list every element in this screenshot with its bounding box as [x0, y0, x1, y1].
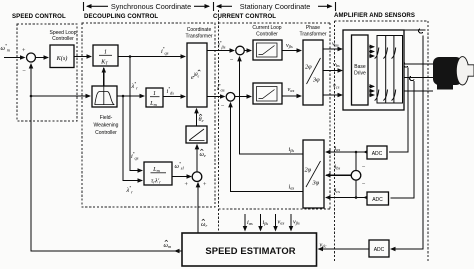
wire current feedback beta arrow: [239, 57, 241, 60]
svg-text:3φ: 3φ: [312, 180, 320, 187]
summing junction slip: [192, 172, 202, 182]
svg-text:Synchronous Coordinate: Synchronous Coordinate: [111, 2, 191, 11]
wire transformer output alpha to current summer: [207, 96, 225, 98]
wire adc3 input arrow: [391, 248, 395, 250]
ruler arrow synchronous right: [194, 5, 209, 7]
group box speed control: [17, 24, 77, 121]
wire dc bus tap down to adc3: [391, 36, 423, 250]
wire flux branch down to slip block: [123, 96, 142, 181]
svg-text:Base: Base: [354, 64, 366, 70]
group box amplifier top: [335, 20, 429, 22]
wire speed feedback vertical: [31, 64, 182, 251]
value Lm over tau lambda fraction: [151, 166, 167, 185]
wire amplifier top dc bus line: [404, 29, 426, 31]
svg-text:Phase: Phase: [306, 25, 320, 31]
wire adc1 input from phase a sensor: [389, 68, 408, 153]
value 1/KT fraction: [99, 49, 112, 66]
wire current feedback beta vertical: [240, 57, 304, 154]
svg-text:Weakening: Weakening: [94, 123, 119, 129]
wire field weakening to 1/Lm: [117, 95, 144, 97]
ruler tick right: [335, 2, 337, 11]
svg-text:+: +: [22, 47, 26, 54]
junction dot ics branch: [355, 196, 358, 199]
block current loop controller beta: [253, 40, 282, 60]
wire ias branch down to minus summer: [355, 152, 357, 171]
inverter leg c line: [393, 36, 395, 104]
wire current feedback alpha vertical: [231, 103, 304, 192]
svg-text:Field-: Field-: [100, 115, 113, 121]
block speed estimator: [182, 233, 317, 266]
block 1/Lm: [146, 88, 163, 107]
svg-text:1: 1: [153, 90, 156, 97]
switch symbols bottom row: [375, 90, 396, 101]
block phase transformer 2ph 3ph: [303, 40, 323, 105]
sensor hook phase a: [404, 63, 408, 67]
svg-text:+: +: [203, 181, 207, 188]
block current loop controller alpha: [253, 83, 282, 104]
svg-text:+: +: [184, 181, 188, 188]
wire rotor speed up to slip summer: [197, 183, 199, 233]
value 2ph 3ph current transformer: [305, 167, 320, 187]
block 1/KT: [93, 45, 118, 66]
wire phase c inverter to motor: [394, 90, 433, 92]
block K(s) speed loop controller: [50, 45, 74, 68]
wire vbeta controller to phase transformer: [282, 50, 301, 52]
svg-text:K(s): K(s): [56, 55, 68, 62]
svg-text:Controller: Controller: [95, 130, 117, 136]
wire speed command input: [4, 57, 25, 59]
symbol controller beta ramp: [257, 43, 278, 57]
wire ics rail from adc to 3ph2ph block: [326, 197, 367, 199]
hat mark omega r: [202, 219, 205, 220]
block coordinate transformer: [187, 43, 207, 107]
svg-text:AMPLIFIER AND SENSORS: AMPLIFIER AND SENSORS: [334, 12, 415, 19]
symbol integrator ramp: [189, 129, 205, 141]
wire speed feedback arrow into summer: [30, 64, 32, 68]
junction dot flux branch: [122, 95, 125, 98]
hat mark theta e: [199, 114, 202, 115]
junction dot ias branch: [355, 151, 358, 154]
symbol phase transformer slash: [307, 58, 321, 84]
ruler tick left: [83, 2, 85, 11]
wire ics branch up to minus summer: [355, 180, 357, 198]
ruler arrow stationary left: [217, 5, 232, 7]
ruler arrow stationary right: [318, 5, 332, 7]
hat mark omega e: [200, 149, 203, 150]
svg-text:Transformer: Transformer: [185, 34, 212, 40]
wire slip summer up to integrator: [196, 145, 198, 172]
wire vbs to amplifier: [323, 70, 342, 72]
sensor hook phase c: [410, 76, 414, 80]
block slip gain Lm over tau lambda: [144, 162, 172, 185]
svg-text:1: 1: [104, 49, 107, 56]
sensor hook dc bus: [419, 29, 423, 33]
junction dot iqs branch: [129, 55, 132, 58]
svg-text:Current Loop: Current Loop: [252, 25, 281, 31]
wire current feedback alpha arrow: [230, 103, 232, 106]
summing junction current beta: [236, 46, 245, 55]
svg-text:−: −: [221, 103, 225, 110]
svg-text:−: −: [362, 181, 366, 188]
motor induction machine: [433, 57, 474, 90]
wire ics adc output arrow: [364, 197, 367, 199]
svg-text:−: −: [362, 164, 366, 171]
wire phase a inverter to motor: [377, 63, 433, 65]
wire ibs summer to 3ph2ph block: [326, 174, 351, 176]
svg-text:Coordinate: Coordinate: [187, 27, 212, 33]
wire estimator stub i beta: [260, 214, 262, 231]
wire vas to amplifier: [323, 48, 342, 50]
symbol controller alpha ramp: [257, 87, 278, 102]
svg-text:Controller: Controller: [256, 32, 278, 38]
wire flux branch arrow: [138, 180, 142, 182]
switch symbols top row: [375, 48, 396, 59]
boundary line synchronous/stationary: [218, 10, 220, 232]
wire ias rail from adc to 3ph2ph block: [326, 151, 367, 153]
hat mark theta exponent: [198, 70, 201, 71]
svg-text:3φ: 3φ: [312, 77, 320, 84]
value 2ph 3ph phase transformer: [305, 64, 320, 84]
base drive gate arrows bottom: [369, 85, 374, 87]
wire K(s) to 1/KT: [74, 56, 91, 58]
wire adc3 output vdc to estimator: [319, 248, 370, 250]
value 1/Lm fraction: [149, 90, 159, 107]
wire estimator stub v alpha: [275, 214, 277, 231]
wire alpha summer to current controller: [235, 96, 251, 98]
block ADC phase c: [367, 192, 389, 205]
svg-text:2φ: 2φ: [305, 64, 312, 71]
wire phase b inverter to motor: [386, 76, 433, 78]
wire estimator speed output arrow: [175, 250, 182, 252]
wire integrator to coordinate transformer theta: [196, 109, 198, 126]
svg-text:CURRENT CONTROL: CURRENT CONTROL: [213, 13, 276, 20]
svg-text:SPEED CONTROL: SPEED CONTROL: [12, 13, 66, 20]
wire vcs to amplifier: [323, 94, 342, 96]
summing junction speed: [27, 53, 36, 62]
block 3ph to 2ph current transformer: [303, 140, 324, 208]
wire ias adc output arrow: [364, 151, 367, 153]
svg-text:2φ: 2φ: [305, 167, 312, 174]
symbol current transformer slash: [306, 161, 321, 187]
inverter leg b line: [385, 36, 387, 104]
junction dot speed feedback branch: [30, 95, 33, 98]
svg-text:DECOUPLING CONTROL: DECOUPLING CONTROL: [84, 13, 158, 20]
block ADC vdc: [369, 240, 389, 257]
svg-text:SPEED ESTIMATOR: SPEED ESTIMATOR: [205, 245, 295, 256]
svg-text:−: −: [230, 57, 234, 64]
svg-text:Transformer: Transformer: [299, 32, 326, 38]
svg-text:Drive: Drive: [354, 71, 366, 77]
wire iqs branch arrow: [138, 170, 142, 172]
group box decoupling control: [82, 23, 215, 207]
block base drive: [352, 35, 369, 105]
ruler arrow synchronous left: [87, 5, 108, 7]
block field weakening controller: [92, 86, 117, 107]
summing junction current alpha: [226, 93, 235, 102]
block integrator theta: [186, 126, 207, 143]
inverter bridge box: [377, 36, 403, 104]
wire slip block to slip summer: [172, 176, 191, 178]
svg-text:ADC: ADC: [374, 247, 385, 253]
wire adc2 input from phase c sensor: [391, 81, 415, 198]
block ADC phase a: [367, 146, 387, 159]
wire iqs branch down to slip block: [130, 57, 142, 171]
symbol field weakening curve: [95, 87, 115, 105]
svg-text:Controller: Controller: [52, 36, 74, 42]
wire 1/KT to coordinate transformer iqs: [118, 56, 185, 58]
wire speed feedback branch to field weakening: [31, 95, 90, 97]
block amplifier outer: [343, 30, 404, 110]
svg-text:−: −: [22, 68, 26, 75]
wire 1/Lm to coordinate transformer ids: [163, 96, 185, 98]
svg-text:ADC: ADC: [372, 197, 383, 203]
hat mark omega m: [165, 240, 168, 241]
wire summer to K(s): [36, 57, 49, 59]
svg-text:ADC: ADC: [372, 151, 383, 157]
base drive gate arrows top: [369, 46, 374, 48]
wire beta summer to current controller: [244, 50, 251, 52]
group box current control right: [329, 23, 331, 209]
group box amplifier left: [334, 21, 336, 262]
wire transformer output beta to current summer: [207, 50, 234, 52]
wire valpha controller to phase transformer: [282, 95, 301, 97]
group box amplifier right: [427, 21, 429, 262]
wire estimator stub i alpha: [244, 214, 246, 231]
svg-text:Stationary Coordinate: Stationary Coordinate: [240, 2, 311, 11]
ruler tick middle: [213, 2, 215, 11]
wire estimator stub v beta: [290, 214, 292, 231]
wire field weakening up to 1/KT: [103, 68, 105, 86]
group box current control top: [219, 22, 331, 24]
group box current control bottom: [219, 208, 331, 210]
summing junction ibs: [351, 171, 361, 181]
